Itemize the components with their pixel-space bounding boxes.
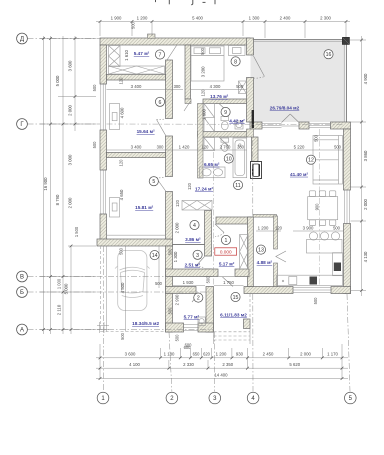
svg-text:500: 500 [155, 281, 163, 286]
svg-text:2 000: 2 000 [68, 105, 73, 116]
svg-text:12: 12 [308, 158, 314, 164]
door corridor to room 8 [184, 101, 191, 111]
wall: rooms 3/vestibule divider piece a [166, 269, 219, 277]
svg-text:380: 380 [237, 144, 245, 149]
svg-text:500: 500 [92, 84, 97, 92]
svg-text:А: А [20, 328, 24, 334]
svg-text:26.79/8.04 м2: 26.79/8.04 м2 [270, 106, 300, 111]
bottom dimension rows [96, 344, 348, 380]
svg-text:11: 11 [235, 183, 240, 189]
axis 1 dashed line [102, 246, 104, 392]
svg-text:500: 500 [131, 21, 136, 29]
svg-text:3 900: 3 900 [303, 226, 314, 231]
svg-text:1 300: 1 300 [249, 16, 260, 21]
vent notch above top wall [148, 34, 156, 38]
svg-text:Б: Б [20, 290, 24, 296]
svg-text:5.17 м²: 5.17 м² [219, 261, 235, 266]
door hall to room 10 [219, 137, 228, 146]
svg-text:500: 500 [206, 276, 211, 284]
svg-text:120: 120 [201, 89, 206, 97]
window right wall [345, 190, 350, 224]
svg-text:500: 500 [313, 297, 318, 305]
window kitchen north a [262, 123, 282, 127]
svg-text:1 610: 1 610 [124, 50, 129, 61]
wall: south exterior left piece [244, 287, 293, 294]
svg-text:120: 120 [119, 159, 124, 167]
svg-text:1 930: 1 930 [183, 280, 194, 285]
svg-text:120: 120 [202, 144, 210, 149]
svg-text:14: 14 [152, 253, 158, 259]
room 13 top thin partition [253, 215, 277, 218]
svg-text:3 400: 3 400 [131, 84, 142, 89]
wall: house right / terrace west, lower piece [247, 78, 254, 123]
garage inner edge line [105, 246, 107, 332]
svg-text:4.42 м²: 4.42 м² [229, 118, 245, 123]
wall: left exterior middle piece [100, 130, 107, 170]
double washbasin vanity room 10 [200, 167, 226, 178]
svg-text:6.11/1.83 м2: 6.11/1.83 м2 [220, 312, 247, 317]
window left wall room 6 [100, 84, 107, 130]
svg-text:13.76 м²: 13.76 м² [210, 94, 229, 99]
wall: room 2 top [166, 287, 197, 294]
svg-text:4 130: 4 130 [363, 251, 368, 262]
wall: hall/kitchen divider above fireplace [252, 137, 259, 162]
toilet room 10 [221, 138, 229, 151]
svg-text:0.000: 0.000 [220, 249, 232, 254]
svg-text:5: 5 [152, 179, 155, 185]
svg-text:4 600: 4 600 [120, 107, 125, 118]
wall: hall/room13 top (y217) [216, 217, 251, 224]
svg-text:3 000: 3 000 [68, 154, 73, 165]
svg-text:500: 500 [92, 141, 97, 149]
window kitchen north b [309, 123, 331, 127]
wall: left exterior upper piece [100, 45, 107, 84]
axis 2 dashed line [169, 332, 172, 392]
svg-text:1 170: 1 170 [327, 352, 338, 357]
wall: rooms 4/3/1 divider lower [205, 269, 212, 277]
shelf unit room 10 [204, 138, 215, 151]
svg-text:5 400: 5 400 [192, 16, 203, 21]
door vestibule to room 2 [192, 294, 199, 303]
svg-text:5 000: 5 000 [55, 75, 60, 86]
svg-text:6.65 м²: 6.65 м² [204, 162, 220, 167]
svg-text:1 180: 1 180 [164, 352, 175, 357]
svg-text:500: 500 [333, 226, 341, 231]
wall: top exterior (axis Д) [100, 38, 250, 45]
svg-text:4 650: 4 650 [119, 189, 124, 200]
axis В dashed line [28, 276, 215, 278]
door corridor to room 6 [157, 119, 167, 137]
sofa room 12 L-shape [313, 136, 343, 185]
window south wall [293, 288, 331, 293]
svg-text:3 400: 3 400 [131, 144, 142, 149]
boiler room 2 fixture [198, 317, 205, 326]
wall: rooms 9/10 divider [198, 132, 248, 138]
svg-text:900: 900 [315, 203, 320, 211]
svg-text:10: 10 [226, 157, 232, 163]
svg-text:600: 600 [185, 343, 193, 348]
svg-text:4 100: 4 100 [129, 362, 140, 367]
wardrobe room 7 vertical [109, 46, 121, 67]
chairs left of table [309, 191, 336, 197]
wall: south exterior right piece [331, 287, 351, 294]
dresser room 6 [110, 104, 120, 130]
toilet room 9 [221, 117, 229, 130]
svg-text:500: 500 [175, 334, 180, 342]
svg-text:4.88 м²: 4.88 м² [257, 260, 273, 265]
door kitchen to room 13 leaf [276, 251, 286, 262]
svg-text:15.81 м²: 15.81 м² [135, 205, 154, 210]
svg-text:4: 4 [193, 223, 196, 229]
svg-text:8: 8 [234, 59, 237, 65]
wardrobe room 1 [240, 235, 249, 269]
svg-text:3 200: 3 200 [201, 66, 206, 77]
wardrobe room 7 long [109, 66, 165, 74]
svg-text:2 000: 2 000 [363, 199, 368, 210]
wall: house right / terrace west, upper piece [247, 38, 254, 55]
svg-text:1: 1 [225, 238, 228, 244]
window left wall room 5 [100, 170, 107, 214]
svg-text:1 000: 1 000 [57, 278, 62, 289]
svg-text:3: 3 [196, 253, 199, 259]
wall: room 2 bottom piece b [198, 323, 214, 332]
garage dashed boundary left [100, 246, 102, 332]
svg-text:16 900: 16 900 [43, 177, 48, 191]
axis circle 5 [345, 392, 357, 404]
svg-text:16: 16 [326, 52, 332, 58]
svg-text:1 300: 1 300 [173, 251, 178, 262]
axis circle 2 [166, 392, 178, 404]
svg-text:2 350: 2 350 [222, 362, 233, 367]
door room 8 to terrace [254, 56, 265, 78]
axis Д dashed line [28, 38, 101, 40]
svg-text:1 500: 1 500 [74, 226, 79, 237]
svg-text:2 400: 2 400 [280, 16, 291, 21]
closet shelves room 9 [204, 104, 215, 132]
room number circles [149, 50, 333, 303]
wall: right exterior lower piece [344, 224, 351, 294]
car in garage [115, 251, 150, 311]
island stools [309, 232, 339, 240]
svg-text:3 600: 3 600 [125, 352, 136, 357]
axis А dashed line [28, 329, 215, 331]
svg-text:6: 6 [159, 100, 162, 106]
svg-text:2.51 м²: 2.51 м² [185, 262, 201, 267]
svg-text:В: В [20, 275, 24, 281]
axis Г dashed line [28, 123, 344, 126]
wall: interior vertical x166-173 piece a [166, 60, 173, 119]
wall: garage right [166, 246, 173, 332]
svg-text:1 200: 1 200 [258, 226, 269, 231]
interior dimension texts [107, 47, 344, 347]
axis 4 dashed line [252, 140, 254, 392]
wall: kitchen top piece b [299, 122, 309, 129]
axis circle 4 [247, 392, 259, 404]
svg-text:2 760: 2 760 [220, 144, 231, 149]
wall: rooms 4/3/1 divider upper [205, 211, 212, 257]
axis Б dashed line [28, 291, 215, 293]
chairs right of table [309, 220, 336, 226]
svg-text:1 900: 1 900 [111, 16, 122, 21]
svg-text:1 750: 1 750 [223, 280, 234, 285]
svg-text:1 420: 1 420 [179, 144, 190, 149]
blue area labels [132, 51, 308, 326]
axis circle Д [17, 33, 28, 44]
svg-text:4 500: 4 500 [120, 282, 125, 293]
svg-text:2 110: 2 110 [57, 304, 62, 315]
svg-text:120: 120 [187, 182, 192, 190]
svg-text:650: 650 [193, 351, 201, 356]
axis circle В [17, 271, 28, 282]
axis circle Б [17, 287, 28, 298]
svg-text:2 300: 2 300 [320, 16, 331, 21]
wall: rooms 6/5 divider [107, 153, 166, 158]
svg-text:7: 7 [159, 53, 162, 59]
svg-text:Д: Д [20, 37, 24, 43]
wall: room 13 right lower [274, 263, 278, 287]
svg-text:4 300: 4 300 [210, 84, 221, 89]
wall: rooms 7/6 divider [107, 75, 166, 81]
wall: interior vertical x166-173 piece c [166, 192, 173, 240]
wardrobe room 8 [239, 81, 247, 94]
svg-text:5 000: 5 000 [64, 283, 69, 294]
window room 2 south [184, 325, 199, 331]
svg-text:13: 13 [258, 248, 264, 254]
door room 7 to 8 [167, 46, 177, 61]
clipped title text at top edge [156, 0, 216, 5]
wall: room 8 left [185, 45, 191, 99]
svg-text:500: 500 [168, 248, 173, 256]
svg-text:500: 500 [118, 247, 123, 255]
svg-text:930: 930 [236, 352, 244, 357]
axis 5 dashed line [347, 294, 350, 392]
svg-text:5 620: 5 620 [289, 362, 300, 367]
svg-text:2 990: 2 990 [175, 294, 180, 305]
bed room 8 [191, 46, 224, 81]
svg-text:15.64 м²: 15.64 м² [137, 129, 156, 134]
svg-text:18.34/5.5 м2: 18.34/5.5 м2 [132, 321, 159, 326]
kitchen counter along south wall [277, 275, 343, 286]
svg-text:500: 500 [200, 47, 205, 55]
dining table [308, 197, 338, 220]
svg-text:4 900: 4 900 [363, 73, 368, 84]
svg-text:500: 500 [120, 332, 125, 340]
wall: bottom-left exterior (room 5 / garage top) [97, 239, 173, 246]
bathtub room 10 [233, 138, 247, 178]
svg-text:2 000: 2 000 [68, 197, 73, 208]
svg-text:41.40 м²: 41.40 м² [290, 172, 309, 177]
svg-text:5.77 м²: 5.77 м² [184, 314, 200, 319]
kitchen island counter [307, 240, 343, 254]
wall: rooms 3/vestibule divider piece b [235, 269, 249, 277]
level mark 0.000 [215, 248, 237, 255]
door room 1 to room 3 [196, 257, 205, 269]
door hall to room 4 [215, 224, 224, 237]
garage dashed boundary bottom [101, 331, 166, 333]
svg-text:3.86 м²: 3.86 м² [185, 237, 201, 242]
porch step lines [214, 294, 251, 344]
axis А marker cross at garage corner [97, 322, 109, 333]
wall: kitchen top piece c [331, 122, 351, 129]
wall: left exterior lower piece [100, 214, 107, 240]
svg-text:120: 120 [175, 199, 180, 207]
svg-text:17.24 м²: 17.24 м² [195, 186, 214, 191]
svg-text:500: 500 [168, 307, 173, 315]
porch 15 dashed outline [214, 294, 251, 340]
top dimension line [96, 16, 350, 39]
wall: rooms 1/13 divider [248, 217, 254, 287]
svg-text:1 200: 1 200 [216, 352, 227, 357]
svg-text:5 220: 5 220 [294, 144, 305, 149]
svg-text:620: 620 [203, 351, 211, 356]
kitchen centerline dashed [318, 129, 320, 286]
svg-text:2 000: 2 000 [300, 352, 311, 357]
door kitchen to terrace (double leaf) [282, 114, 300, 126]
axis circle 1 [97, 392, 109, 404]
wardrobe hall (above room 4) [182, 201, 212, 211]
left dimension chains [40, 36, 97, 334]
kitchen counter vertical leg [333, 253, 343, 276]
dresser room 5 [110, 198, 120, 218]
porch pier [244, 319, 251, 329]
wall: right exterior upper piece [344, 129, 351, 190]
wall: rooms 3/4 thin divider [173, 244, 205, 246]
svg-text:8 790: 8 790 [55, 194, 60, 205]
terrace room 16 gray floor [250, 39, 347, 122]
svg-text:300: 300 [157, 144, 165, 149]
wall: rooms 9/10 left [198, 104, 204, 179]
svg-text:15: 15 [233, 295, 239, 301]
svg-text:2 330: 2 330 [183, 362, 194, 367]
wall: room 13 right upper [274, 216, 278, 249]
fireplace / boiler unit [251, 162, 262, 179]
svg-text:3 860: 3 860 [363, 150, 368, 161]
svg-text:300: 300 [174, 84, 182, 89]
svg-text:2 450: 2 450 [263, 352, 274, 357]
axis circle Г [17, 119, 28, 130]
svg-text:500: 500 [236, 84, 244, 89]
washbasin room 9 [235, 121, 243, 129]
svg-text:500: 500 [314, 134, 319, 142]
axis circle 3 [209, 392, 221, 404]
right dimension chain [350, 36, 368, 296]
axis 3 dashed line [214, 152, 215, 392]
svg-text:1 200: 1 200 [137, 16, 148, 21]
door hall to room 9 [219, 104, 228, 113]
garage interior dim line 4500 [125, 246, 127, 332]
wall: interior vertical x166-173 piece b [166, 136, 173, 177]
wall: room 2 bottom piece a [166, 323, 184, 332]
svg-text:5.47 м²: 5.47 м² [134, 51, 150, 56]
svg-text:2 000: 2 000 [175, 222, 180, 233]
wall: kitchen top piece a [250, 122, 262, 129]
svg-text:9: 9 [224, 110, 227, 116]
svg-text:120: 120 [119, 77, 124, 85]
axis circle А [17, 324, 28, 335]
entrance door to room 1 [219, 277, 235, 287]
svg-text:3 600: 3 600 [68, 60, 73, 71]
svg-text:120: 120 [275, 226, 283, 231]
svg-text:1 600: 1 600 [202, 109, 207, 120]
svg-text:500: 500 [334, 144, 342, 149]
svg-text:2: 2 [197, 296, 200, 302]
door corridor to room 5 [156, 177, 166, 192]
terrace corner post [342, 37, 349, 44]
wall: room 8 bottom (rooms 8/9 divider) [203, 99, 247, 104]
wall: rooms 2/15 divider [206, 287, 214, 333]
niche room 5 interior line [107, 234, 166, 236]
dresser room 8 right [229, 46, 246, 56]
svg-text:14 400: 14 400 [214, 372, 228, 377]
